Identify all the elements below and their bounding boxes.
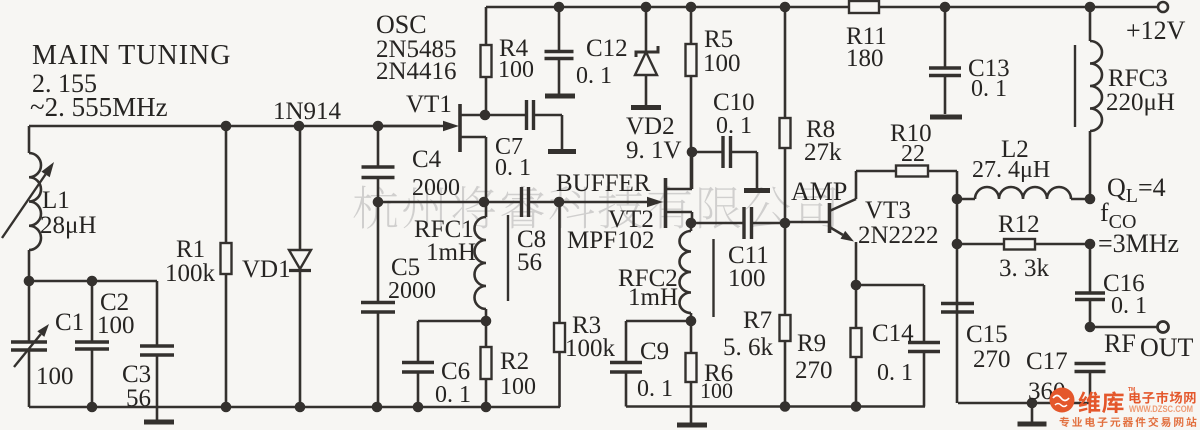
ground below C10 bbox=[744, 188, 770, 193]
resistor R7 bbox=[784, 223, 787, 315]
core bar RFC3 bbox=[1074, 45, 1076, 127]
inductor RFC3 bbox=[1089, 7, 1092, 41]
svg-text:0. 1: 0. 1 bbox=[495, 155, 531, 181]
svg-text:OUT: OUT bbox=[1140, 333, 1194, 362]
wire gate rail bbox=[29, 125, 440, 128]
node dot R9 bottom bbox=[851, 401, 862, 412]
ground below R6 bbox=[677, 423, 707, 428]
inductor RFC1 bbox=[475, 217, 486, 309]
svg-text:VD1: VD1 bbox=[242, 256, 291, 283]
svg-text:C5: C5 bbox=[391, 254, 420, 281]
node dot R1 top bbox=[221, 121, 232, 132]
svg-text:L1: L1 bbox=[42, 187, 70, 214]
svg-text:100k: 100k bbox=[165, 260, 216, 287]
node dot 3MHz bbox=[1085, 239, 1096, 250]
svg-text:100: 100 bbox=[36, 363, 74, 390]
capacitor C6 bbox=[402, 361, 434, 364]
ground below C12 bbox=[545, 94, 575, 99]
node dot R5 top bbox=[686, 2, 697, 13]
wire buffer rail right bbox=[529, 201, 561, 204]
svg-text:MAIN TUNING: MAIN TUNING bbox=[32, 40, 231, 71]
ground below rail C bbox=[1018, 422, 1047, 427]
core bar RFC2 bbox=[712, 239, 714, 317]
logo icon circle bbox=[1050, 388, 1075, 413]
resistor R1 bbox=[225, 126, 228, 243]
node dot RFC1 bottom bbox=[481, 316, 492, 327]
ground below C7 bbox=[548, 149, 576, 154]
svg-text:2000: 2000 bbox=[388, 278, 436, 304]
wire L1 left drop bbox=[28, 126, 31, 153]
resistor R4 bbox=[485, 7, 488, 45]
resistor R6 bbox=[690, 321, 693, 353]
transistor VT3 2N2222 bbox=[785, 221, 828, 224]
watermark text bbox=[354, 186, 836, 229]
node dot C4 top bbox=[373, 121, 384, 132]
node dot VT1 source bbox=[479, 197, 490, 208]
wire to C9 bbox=[626, 320, 691, 323]
svg-text:100k: 100k bbox=[565, 335, 616, 362]
svg-text:270: 270 bbox=[973, 346, 1011, 373]
capacitor C11 bbox=[691, 222, 744, 225]
svg-text:C10: C10 bbox=[713, 89, 755, 116]
svg-text:C6: C6 bbox=[441, 358, 470, 385]
svg-text:MPF102: MPF102 bbox=[567, 227, 655, 254]
node dot RFC2 bottom bbox=[686, 316, 697, 327]
logo 电子市场网 bbox=[1130, 391, 1196, 404]
node dot R1 bottom bbox=[221, 402, 232, 413]
svg-text:1N914: 1N914 bbox=[273, 98, 342, 125]
wire RF OUT bbox=[1090, 326, 1157, 329]
node dot C10 tap bbox=[687, 147, 698, 158]
svg-text:2000: 2000 bbox=[412, 175, 460, 201]
svg-text:C1: C1 bbox=[55, 309, 84, 336]
svg-text:R7: R7 bbox=[743, 307, 772, 334]
ground below C13 bbox=[930, 115, 962, 120]
capacitor C3 bbox=[140, 344, 174, 347]
ground rail A bbox=[29, 406, 560, 409]
resistor R10 bbox=[896, 166, 928, 177]
svg-text:RF: RF bbox=[1104, 329, 1136, 358]
core bar RFC1 bbox=[507, 215, 509, 301]
svg-text:27k: 27k bbox=[804, 139, 842, 166]
capacitor C12 bbox=[558, 7, 561, 51]
wire tank node bbox=[29, 280, 157, 283]
node dot C6 bottom bbox=[413, 402, 424, 413]
svg-text:C15: C15 bbox=[966, 321, 1008, 348]
svg-text:1mH: 1mH bbox=[426, 239, 476, 266]
arrow into VT2 gate bbox=[560, 201, 647, 204]
svg-text:=3MHz: =3MHz bbox=[1098, 229, 1179, 258]
ground stub bbox=[1031, 403, 1034, 422]
svg-text:0. 1: 0. 1 bbox=[716, 113, 752, 139]
node dot VT2 source bbox=[686, 218, 697, 229]
svg-text:220μH: 220μH bbox=[1106, 89, 1175, 116]
arrow of variable C1 bbox=[14, 334, 41, 367]
node dot L1 bottom bbox=[24, 276, 35, 287]
node dot ground C bbox=[1027, 398, 1038, 409]
capacitor C13 bbox=[944, 7, 947, 68]
svg-text:VT1: VT1 bbox=[406, 91, 452, 118]
node dot C13 top bbox=[940, 2, 951, 13]
inductor L1 bbox=[29, 153, 41, 250]
svg-text:0. 1: 0. 1 bbox=[971, 76, 1007, 102]
capacitor C17 bbox=[1075, 362, 1106, 365]
svg-text:5. 6k: 5. 6k bbox=[723, 334, 774, 361]
wire L1 bottom bbox=[28, 250, 31, 281]
capacitor C4 bbox=[377, 126, 380, 167]
node dot R12 left bbox=[952, 239, 963, 250]
node dot VT3 base bbox=[780, 218, 791, 229]
svg-text:C4: C4 bbox=[412, 146, 442, 173]
svg-text:270: 270 bbox=[795, 357, 833, 384]
resistor R11 bbox=[849, 1, 879, 13]
capacitor C5 bbox=[377, 202, 380, 302]
zener diode VD2 bbox=[645, 7, 648, 52]
svg-text:100: 100 bbox=[728, 265, 766, 292]
svg-text:R2: R2 bbox=[500, 348, 529, 375]
ground rail C bbox=[958, 402, 1090, 405]
svg-text:0. 1: 0. 1 bbox=[637, 376, 673, 402]
node dot C2 bottom bbox=[87, 402, 98, 413]
svg-text:56: 56 bbox=[517, 249, 542, 276]
svg-text:+12V: +12V bbox=[1126, 16, 1186, 45]
svg-text:2N2222: 2N2222 bbox=[858, 222, 939, 249]
svg-text:C14: C14 bbox=[872, 320, 914, 347]
+12V terminal bbox=[1158, 2, 1168, 12]
svg-text:VT3: VT3 bbox=[865, 197, 911, 224]
capacitor C16 bbox=[1089, 244, 1092, 293]
node dot VD1 bottom bbox=[295, 402, 306, 413]
node dot VD1 top bbox=[294, 121, 305, 132]
node dot VD2 top bbox=[641, 2, 652, 13]
svg-text:AMP: AMP bbox=[791, 177, 847, 206]
wire RFC1 bottom to C6 bbox=[418, 320, 486, 323]
node dot C12 top bbox=[554, 2, 565, 13]
node dot C5 bottom bbox=[372, 402, 383, 413]
node dot R9 top bbox=[851, 280, 862, 291]
capacitor C14 bbox=[856, 284, 924, 287]
svg-text:0. 1: 0. 1 bbox=[435, 382, 471, 408]
svg-text:9. 1V: 9. 1V bbox=[626, 137, 682, 164]
svg-text:R12: R12 bbox=[998, 211, 1040, 238]
svg-text:180: 180 bbox=[846, 45, 884, 72]
svg-text:0. 1: 0. 1 bbox=[1111, 293, 1147, 319]
svg-text:100: 100 bbox=[498, 57, 534, 83]
svg-text:R5: R5 bbox=[704, 26, 733, 53]
svg-text:0. 1: 0. 1 bbox=[576, 63, 612, 89]
node dot C2 top bbox=[87, 276, 98, 287]
logo 维库 bbox=[1079, 391, 1124, 413]
ground below VD2 bbox=[631, 105, 661, 110]
svg-text:R9: R9 bbox=[797, 330, 826, 357]
resistor R10 wire bbox=[856, 170, 896, 173]
resistor R5 bbox=[690, 7, 693, 44]
ground below C3 bbox=[144, 420, 174, 425]
svg-text:0. 1: 0. 1 bbox=[877, 360, 913, 386]
svg-text:100: 100 bbox=[700, 378, 733, 403]
transistor VT2 JFET bbox=[664, 178, 668, 228]
svg-text:VD2: VD2 bbox=[626, 113, 675, 140]
svg-text:C17: C17 bbox=[1026, 348, 1068, 375]
svg-text:C9: C9 bbox=[640, 338, 669, 365]
capacitor C2 bbox=[91, 281, 94, 342]
resistor R2 bbox=[485, 321, 488, 347]
wire +12V top rail bbox=[486, 6, 1158, 9]
wire buffer rail left bbox=[378, 201, 521, 204]
node dot RF OUT bbox=[1085, 322, 1096, 333]
svg-text:100: 100 bbox=[703, 50, 741, 77]
node dot R8 top bbox=[780, 2, 791, 13]
capacitor C8 bbox=[520, 187, 523, 217]
svg-text:100: 100 bbox=[97, 312, 135, 339]
capacitor C1 variable bbox=[28, 281, 31, 342]
wire C3 drop bbox=[156, 281, 159, 346]
resistor R8 bbox=[784, 7, 787, 118]
svg-text:27. 4μH: 27. 4μH bbox=[972, 157, 1050, 183]
svg-text:WWW.DZSC.COM: WWW.DZSC.COM bbox=[1129, 404, 1193, 414]
inductor L2 bbox=[957, 198, 975, 201]
svg-text:C3: C3 bbox=[122, 361, 151, 388]
node dot C4 bottom bbox=[373, 197, 384, 208]
RF OUT terminal bbox=[1158, 322, 1169, 333]
svg-text:RFC3: RFC3 bbox=[1108, 65, 1168, 92]
svg-text:~2. 555MHz: ~2. 555MHz bbox=[30, 92, 168, 122]
svg-text:R1: R1 bbox=[176, 236, 205, 263]
ground rail B bbox=[626, 405, 925, 408]
node dot QL bbox=[1085, 194, 1096, 205]
node dot L2 left bbox=[952, 194, 963, 205]
svg-text:OSC: OSC bbox=[376, 10, 427, 39]
svg-text:28μH: 28μH bbox=[40, 212, 96, 239]
resistor R9 bbox=[855, 285, 858, 328]
node dot R2 bottom bbox=[481, 402, 492, 413]
transistor VT1 JFET bbox=[458, 104, 462, 152]
logo slogan bbox=[1060, 417, 1197, 427]
arrow into VT1 gate bbox=[380, 125, 443, 128]
capacitor C7 bbox=[486, 114, 526, 117]
capacitor C9 bbox=[610, 361, 642, 364]
svg-text:2N4416: 2N4416 bbox=[376, 58, 457, 85]
diode VD1 bbox=[299, 126, 302, 250]
node dot VT1 drain bbox=[480, 110, 491, 121]
resistor R12 bbox=[957, 243, 1004, 246]
node dot RFC3 top bbox=[1085, 2, 1096, 13]
capacitor C10 bbox=[692, 151, 722, 154]
svg-text:BUFFER: BUFFER bbox=[556, 170, 651, 197]
svg-text:3. 3k: 3. 3k bbox=[999, 255, 1050, 282]
node dot R3 top bbox=[554, 197, 565, 208]
resistor R3 bbox=[558, 202, 561, 323]
svg-text:C12: C12 bbox=[586, 35, 628, 62]
inductor RFC2 bbox=[690, 223, 693, 231]
node dot R7 bottom bbox=[780, 401, 791, 412]
svg-text:22: 22 bbox=[901, 141, 925, 167]
svg-text:1mH: 1mH bbox=[628, 284, 678, 311]
svg-text:100: 100 bbox=[500, 374, 536, 400]
capacitor C15 bbox=[941, 302, 974, 305]
arrow of variable L1 bbox=[2, 174, 46, 238]
